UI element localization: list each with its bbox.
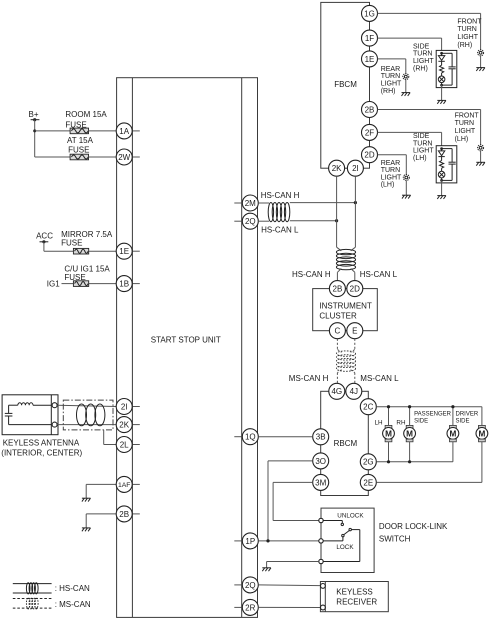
svg-text:REAR: REAR [381,66,400,73]
svg-text:TURN: TURN [455,120,474,127]
wire 1AF to ground [86,484,116,498]
svg-text:1E: 1E [119,247,129,256]
pin 2W [116,149,132,165]
svg-text:HS-CAN H: HS-CAN H [261,191,300,200]
svg-text:2K: 2K [332,164,342,173]
wire fuse to 1A [89,130,117,132]
motor LH [383,425,395,441]
wire 2Q to keyless receiver [258,584,320,587]
pin 2M [242,195,258,211]
pin stubs left strip [132,131,139,514]
wire HS-CAN H from 2M [258,202,269,204]
wire IG1 feed [62,283,74,285]
wire to ground [441,85,443,100]
svg-text:2M: 2M [245,199,256,208]
svg-text:PASSENGER: PASSENGER [414,412,452,418]
motor driver side [476,425,488,441]
pin 2K [329,160,345,176]
wire 1F to side turn light RH [378,38,442,50]
svg-text:TURN: TURN [457,26,476,33]
svg-text:B+: B+ [29,110,39,119]
fuse ROOM 15A [65,110,107,134]
svg-text:2D: 2D [364,151,374,160]
side turn light RH box [436,50,457,87]
svg-text:(LH): (LH) [455,136,469,143]
svg-text:KEYLESS ANTENNA: KEYLESS ANTENNA [3,438,80,447]
wire 2F to side turn light LH [378,132,442,145]
pin 2Q [242,213,258,229]
svg-text:2W: 2W [118,153,130,162]
svg-text:LIGHT: LIGHT [381,81,402,88]
wire 1G to front turn light RH [378,13,481,50]
lamp [438,171,445,178]
wire MS-CAN H dashed [337,339,341,384]
svg-text:2G: 2G [363,458,374,467]
wire 1P to door lock switch [258,540,319,542]
svg-text:4J: 4J [350,387,358,396]
ground [476,162,485,165]
bulb front turn light LH [478,145,484,151]
svg-text:FRONT: FRONT [457,18,482,25]
svg-text:REAR: REAR [381,160,400,167]
wire 2B(left) to ground [86,514,116,528]
svg-text:C: C [335,327,341,336]
ground [402,93,411,96]
switch blade [323,528,360,561]
RBCM box [321,391,369,495]
svg-text:ROOM 15A: ROOM 15A [65,110,107,119]
svg-text:2F: 2F [365,128,374,137]
wire 2E driver motor return [376,442,482,483]
svg-text:2E: 2E [363,478,373,487]
pin 2G [360,454,376,470]
svg-text:: MS-CAN: : MS-CAN [55,600,91,609]
svg-text:4G: 4G [331,387,342,396]
svg-text:2Q: 2Q [245,217,256,226]
pin 2E [360,474,376,490]
svg-text:KEYLESS: KEYLESS [336,588,372,597]
legend HS-CAN [13,583,90,594]
svg-text:SIDE: SIDE [413,43,430,50]
svg-text:2I: 2I [352,164,359,173]
svg-text:1F: 1F [365,34,374,43]
wire B+ feed [33,120,70,157]
pin 2L [116,437,132,453]
svg-text:DRIVER: DRIVER [456,412,479,418]
legend MS-CAN [13,598,91,609]
svg-text:2D: 2D [350,285,360,294]
fuse MIRROR 7.5A [61,230,113,254]
svg-text:: HS-CAN: : HS-CAN [55,584,90,593]
wire fuse to 1E [89,250,117,252]
pin 2R [242,599,258,615]
svg-text:1G: 1G [364,9,375,18]
pin 1Q [242,429,258,445]
svg-text:TURN: TURN [413,140,432,147]
pin stubs right strip [234,203,242,607]
node B+ [29,110,40,121]
svg-text:LIGHT: LIGHT [413,148,434,155]
keyless antenna box [1,395,82,458]
wire ACC feed [44,242,74,251]
pin 1F [362,30,378,46]
pin 3O [313,453,329,469]
wire MS-CAN L dashed [351,339,355,384]
pin 2F [362,124,378,140]
svg-text:MS-CAN L: MS-CAN L [360,374,399,383]
FBCM box [321,2,370,168]
pin 3B [313,429,329,445]
terminals on box edge [319,518,323,522]
svg-text:SWITCH: SWITCH [379,535,411,544]
svg-text:1E: 1E [365,55,375,64]
wire switch to ground [267,562,319,568]
wire 2I(FBCM) down [351,176,356,251]
wire 3M to door lock switch [273,482,319,520]
svg-text:INSTRUMENT: INSTRUMENT [319,302,372,311]
ground [262,568,271,571]
svg-text:(INTERIOR, CENTER): (INTERIOR, CENTER) [1,448,82,457]
svg-text:SIDE: SIDE [456,419,470,425]
svg-text:IG1: IG1 [47,280,60,289]
pin 2D [347,281,363,297]
pin 2I [347,160,363,176]
node 1P/3O junction [266,539,269,542]
svg-text:2Q: 2Q [245,581,256,590]
pin 1A [116,123,132,139]
motor RH [404,425,416,441]
svg-text:2C: 2C [363,403,373,412]
svg-text:SIDE: SIDE [413,133,430,140]
ground [82,528,91,531]
svg-text:ACC: ACC [36,232,53,241]
svg-text:LIGHT: LIGHT [455,128,476,135]
wire antenna twisted pair [57,404,116,426]
switch unlock contact [323,521,343,526]
wire 3O to 1P node [268,461,313,541]
wire fuse to 2W [89,156,117,158]
pin E [347,323,363,339]
pin C [329,323,345,339]
svg-text:START STOP UNIT: START STOP UNIT [151,336,221,345]
side turn light LH box [436,146,457,183]
svg-text:CLUSTER: CLUSTER [319,311,357,320]
svg-text:2K: 2K [119,421,129,430]
svg-text:M: M [385,429,392,438]
svg-text:2B: 2B [119,510,129,519]
svg-text:FUSE: FUSE [61,239,82,248]
svg-text:3B: 3B [316,433,326,442]
svg-text:TURN: TURN [413,51,432,58]
svg-text:M: M [449,429,456,438]
svg-text:2B: 2B [333,285,343,294]
svg-text:SIDE: SIDE [414,419,428,425]
svg-text:LH: LH [375,419,384,426]
motor passenger side [447,425,459,441]
switch lock contact [323,534,344,541]
wire to ground [480,56,482,68]
svg-text:(LH): (LH) [413,155,427,162]
pin 2B [362,102,378,118]
wires twist to instrument cluster [337,269,354,281]
svg-text:(RH): (RH) [457,42,472,49]
pin 2I [116,399,132,415]
svg-text:FRONT: FRONT [455,112,480,119]
wire 1Q to 3B [258,436,312,438]
pin 2B [116,506,132,522]
svg-text:TURN: TURN [381,167,400,174]
svg-text:HS-CAN L: HS-CAN L [360,270,398,279]
pin 4G [329,383,345,399]
pin 2K [116,417,132,433]
capacitor C [442,148,453,150]
svg-text:LIGHT: LIGHT [457,34,478,41]
resistor R [440,65,444,73]
wire 2B to front turn light LH [378,110,481,145]
pin 4J [346,383,362,399]
wire HS-CAN H to node [290,201,357,204]
wire 1E to rear turn light RH [378,59,406,74]
pin 1B [116,276,132,292]
pin 2Q [242,577,258,593]
fuse AT 15A [67,136,94,160]
wire fuse to 1B [89,283,117,285]
svg-text:3M: 3M [315,478,326,487]
svg-text:2L: 2L [120,440,129,449]
svg-text:1Q: 1Q [245,433,256,442]
bulb front turn light RH [478,50,484,56]
ground [402,195,411,198]
pin 1G [362,5,378,21]
svg-text:FUSE: FUSE [68,145,89,154]
wire 2R to keyless receiver [258,606,320,608]
wire 2G motor returns [376,442,453,462]
pin 2D [362,147,378,163]
svg-text:LIGHT: LIGHT [381,174,402,181]
door lock-link switch box [321,508,374,572]
svg-text:HS-CAN H: HS-CAN H [292,270,331,279]
svg-text:HS-CAN L: HS-CAN L [261,226,299,235]
ground [437,100,446,103]
svg-text:DOOR LOCK-LINK: DOOR LOCK-LINK [379,522,448,531]
svg-text:1AF: 1AF [118,482,130,489]
svg-text:M: M [406,429,413,438]
ground [82,498,91,501]
wire HS-CAN L to node [290,219,338,222]
svg-text:2I: 2I [121,402,128,411]
svg-text:TURN: TURN [381,73,400,80]
svg-text:RH: RH [396,419,406,426]
svg-text:RECEIVER: RECEIVER [336,597,377,606]
shield (dash-dot) [63,400,116,444]
pin 1P [242,533,258,549]
pin 1E [116,243,132,259]
ground [476,68,485,71]
svg-text:LOCK: LOCK [336,544,354,551]
svg-text:3O: 3O [315,457,326,466]
svg-text:M: M [478,429,485,438]
fuse C/U IG1 15A [64,264,110,286]
start stop unit box [117,78,258,618]
ground [437,196,446,199]
svg-text:E: E [352,327,357,336]
svg-text:(LH): (LH) [381,182,395,189]
pin 2C [360,399,376,415]
resistor R [440,161,444,169]
svg-text:LIGHT: LIGHT [413,58,434,65]
svg-text:AT 15A: AT 15A [67,136,94,145]
wire 2C to door lock motors [376,407,482,426]
svg-text:1B: 1B [119,280,129,289]
svg-text:1A: 1A [119,127,129,136]
wire to ground [441,180,443,195]
svg-text:1P: 1P [245,537,255,546]
bulb rear turn light LH [403,175,409,181]
svg-text:2B: 2B [365,105,375,114]
keyless receiver box [320,582,388,612]
wire HS-CAN L from 2Q [258,220,269,222]
twisted pair HS-CAN [268,203,290,222]
svg-text:MS-CAN H: MS-CAN H [289,374,329,383]
svg-text:2R: 2R [245,603,255,612]
svg-text:UNLOCK: UNLOCK [337,513,364,520]
pin 2B [329,281,345,297]
instrument cluster box [313,289,378,331]
LED D1 [438,56,444,61]
pin 3M [313,474,329,490]
wire 2D to rear turn light LH [378,155,407,175]
LED D2 [438,151,444,156]
twisted pair MS-CAN (dashed) [336,351,355,371]
svg-text:(RH): (RH) [413,65,428,72]
svg-text:(RH): (RH) [381,88,396,95]
node ACC [36,232,53,244]
bulb rear turn light RH [403,74,409,80]
lamp [438,76,445,83]
twisted pair HS-CAN vertical [336,249,355,269]
pin 1AF [116,476,132,492]
capacitor C [442,52,453,54]
pin 1E [362,51,378,67]
wire 2K(FBCM) down [337,176,342,251]
svg-text:RBCM: RBCM [334,439,358,448]
svg-text:FBCM: FBCM [334,80,357,89]
